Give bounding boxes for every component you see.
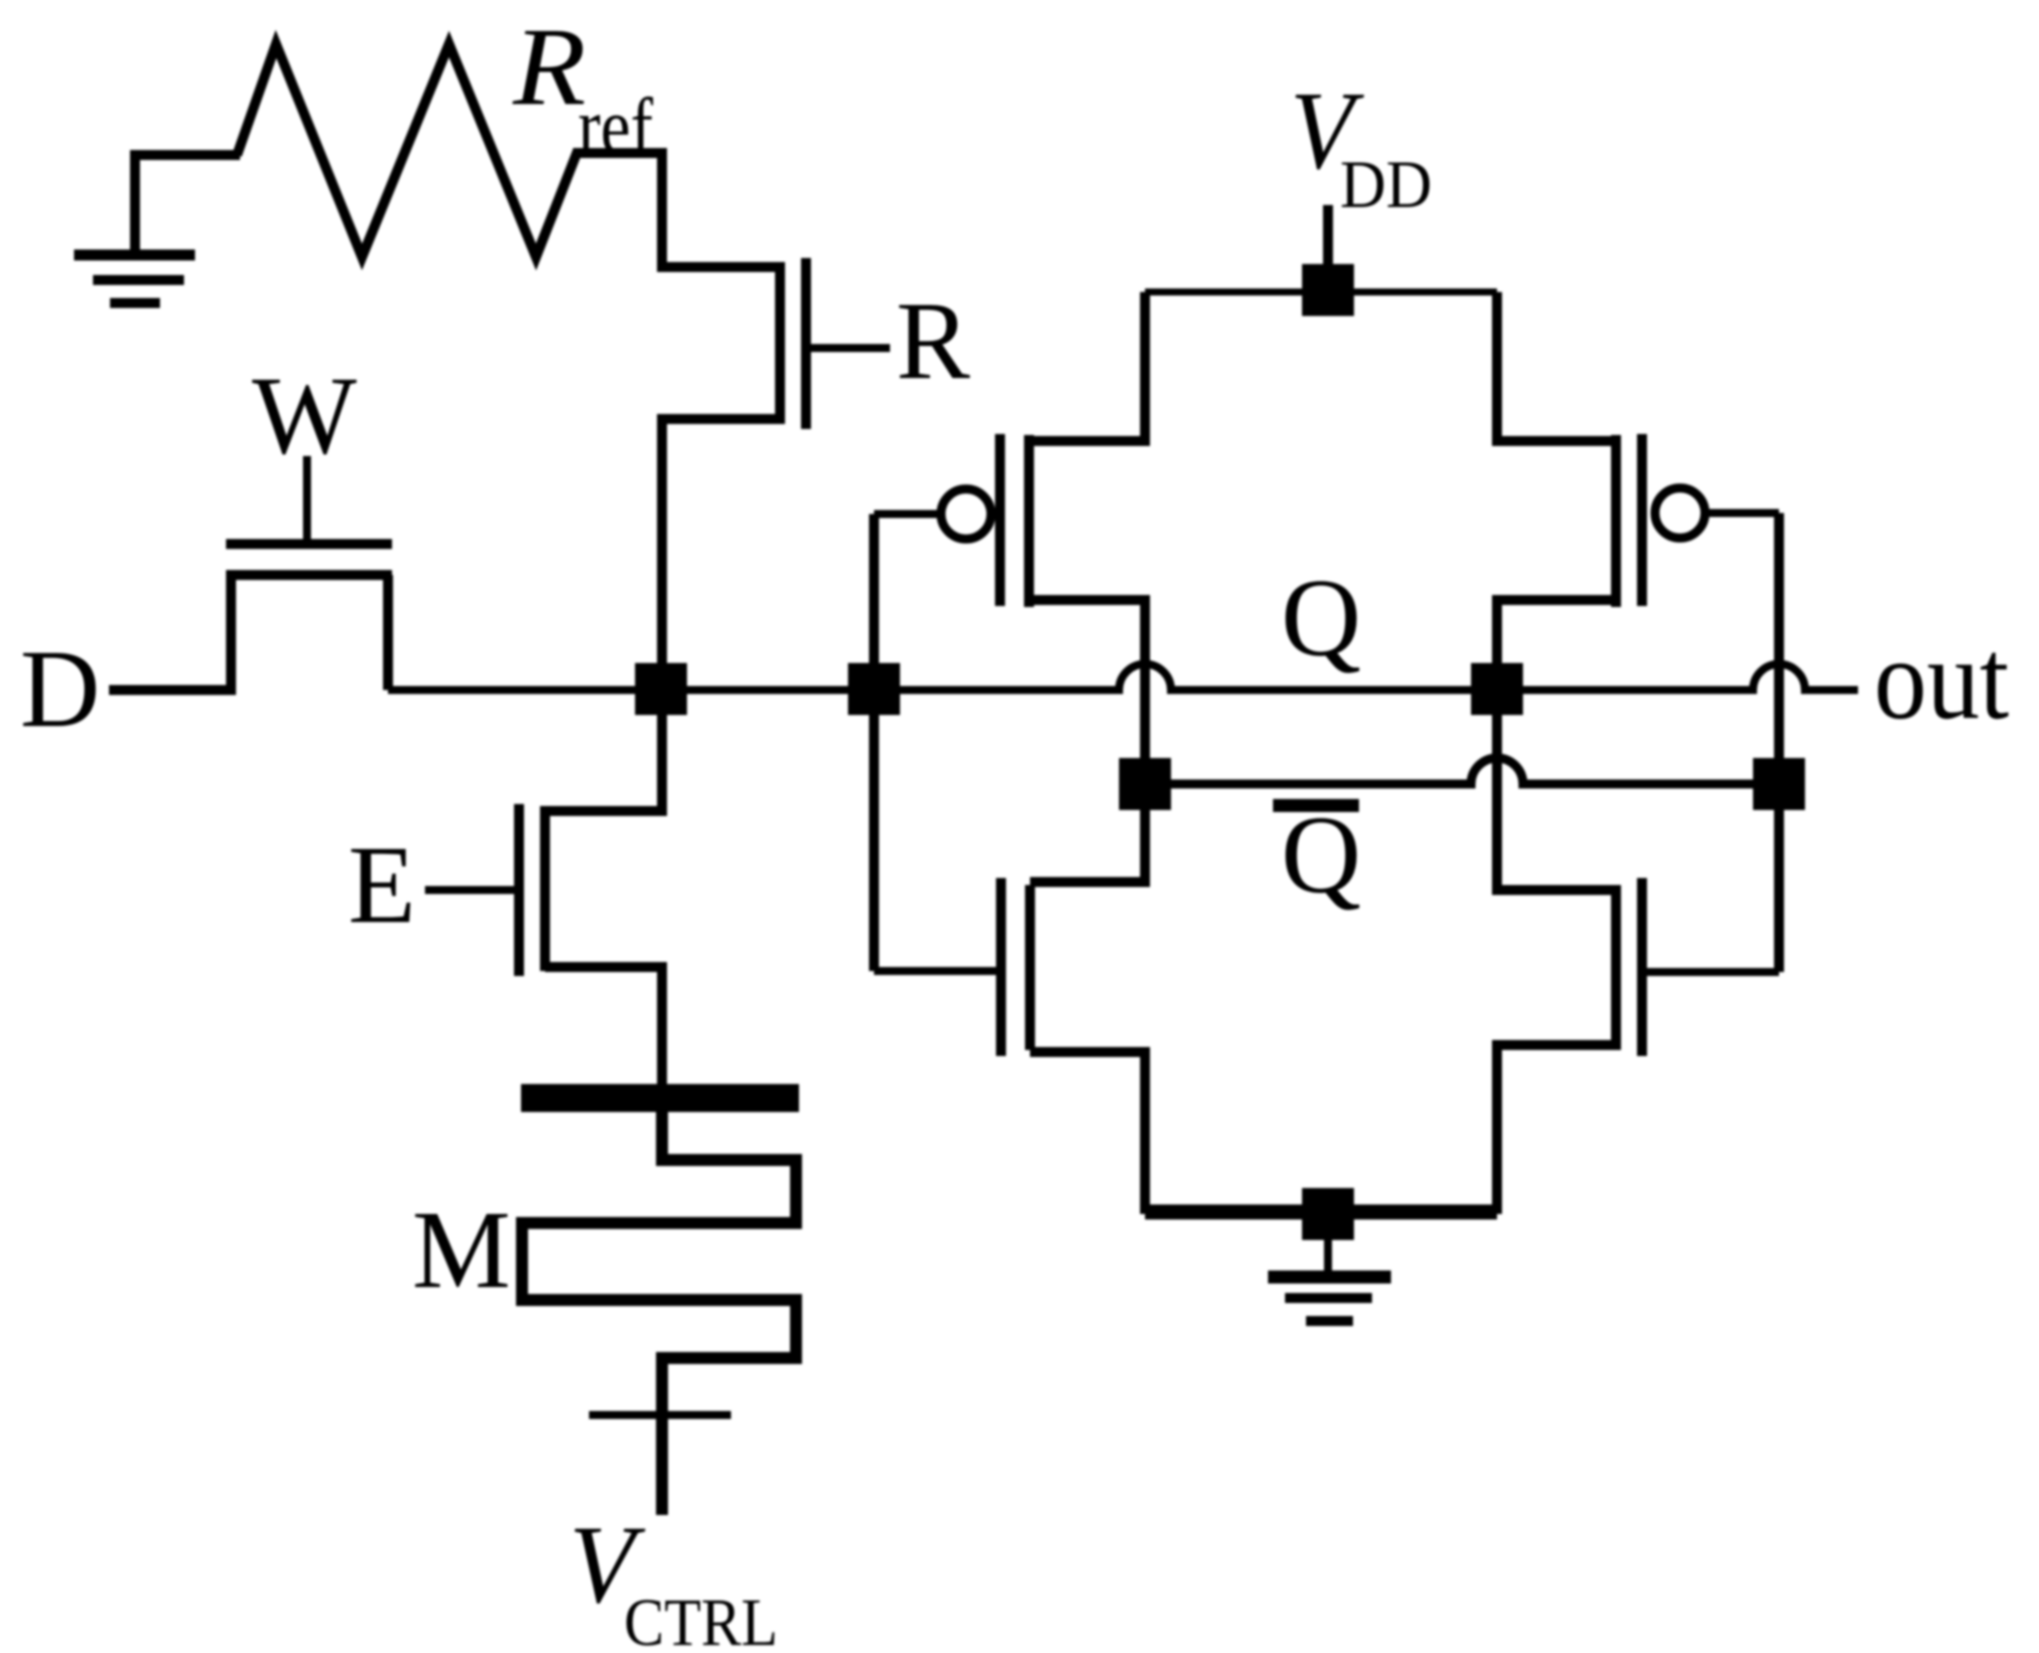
transistor R (NMOS, gate on right) <box>780 258 890 429</box>
transistor N2 (right NMOS) <box>1616 878 1642 1056</box>
label VDD <box>1290 70 1432 222</box>
wire: R source down to node <box>662 419 780 689</box>
junction: latch-L input at bus <box>848 663 900 715</box>
junction: Q node at bus <box>1471 663 1523 715</box>
junction: ground rail <box>1302 1188 1354 1240</box>
ground (bottom) <box>1268 1238 1391 1321</box>
wire: P2 drain down to Q node <box>1497 600 1616 689</box>
transistor P1 (left PMOS) <box>1000 434 1029 607</box>
ground (top-left) <box>74 150 195 303</box>
label Qbar <box>1273 794 1361 917</box>
wire: P2 source to VDD rail <box>1497 292 1616 441</box>
wire: latch-L input to N1 gate <box>874 967 1001 975</box>
svg-text:D: D <box>20 628 100 751</box>
wire: Q node down to N2 drain <box>1497 689 1616 890</box>
wire: bus D-Q-out with hops <box>388 664 1858 690</box>
memristor M electrode bar <box>521 1084 799 1112</box>
wire: latch-L input vertical <box>869 514 879 971</box>
wire: E source down to memristor <box>545 967 662 1084</box>
svg-text:Q: Q <box>1281 794 1361 917</box>
label VCTRL <box>569 1504 778 1653</box>
memristor M meander <box>522 1112 796 1515</box>
wire: W drain <box>383 575 393 690</box>
junction: VDD <box>1302 264 1354 316</box>
wire: resistor to transistor R drain <box>573 153 780 267</box>
svg-text:E: E <box>348 824 416 947</box>
source VCTRL crossbar <box>589 1411 731 1419</box>
wire: node down to E drain <box>545 689 662 811</box>
transistor P2 (right PMOS) <box>1616 434 1642 607</box>
junction: D node <box>635 663 687 715</box>
svg-text:R: R <box>896 280 970 403</box>
wire: N1 source to ground rail <box>1030 1052 1145 1214</box>
transistor P1 (left PMOS) gate bubble <box>941 489 991 539</box>
svg-text:CTRL: CTRL <box>624 1584 778 1653</box>
transistor W (NMOS, gate on top) <box>226 456 392 575</box>
wire: P1 drain down through bus to N1 drain <box>1029 600 1145 882</box>
transistor P2 gate bubble <box>1655 488 1705 538</box>
wire: latch-L input to P1 bubble <box>874 510 941 518</box>
svg-text:Q: Q <box>1281 557 1361 680</box>
wire: ground rail (bottom) <box>1145 1205 1497 1220</box>
transistor E (NMOS, gate on left) <box>425 804 545 976</box>
transistor N1 (left NMOS) <box>1001 878 1030 1056</box>
wire: ground stub to resistor <box>131 150 240 160</box>
svg-text:DD: DD <box>1340 146 1432 222</box>
svg-text:out: out <box>1874 616 2009 744</box>
wire: D lead and W source <box>109 575 231 690</box>
wire: latch-R input vertical <box>1774 513 1784 972</box>
wire: P1 source to VDD rail <box>1029 292 1145 441</box>
wire: VDD stub <box>1323 205 1333 268</box>
svg-text:R: R <box>512 6 586 129</box>
wire: N2 gate to latch-R input <box>1646 968 1779 976</box>
label Rref <box>512 6 653 171</box>
junction: Qbar at latch-L output <box>1119 758 1171 810</box>
wire: Qbar line with hop <box>1145 758 1779 784</box>
wire: N2 source to ground rail <box>1497 1045 1616 1214</box>
wire: VDD rail <box>1145 289 1497 296</box>
resistor Rref <box>237 44 578 257</box>
junction: Qbar at latch-R input <box>1753 758 1805 810</box>
svg-text:M: M <box>412 1189 511 1312</box>
wire: P2 bubble to latch-R input <box>1705 509 1779 517</box>
